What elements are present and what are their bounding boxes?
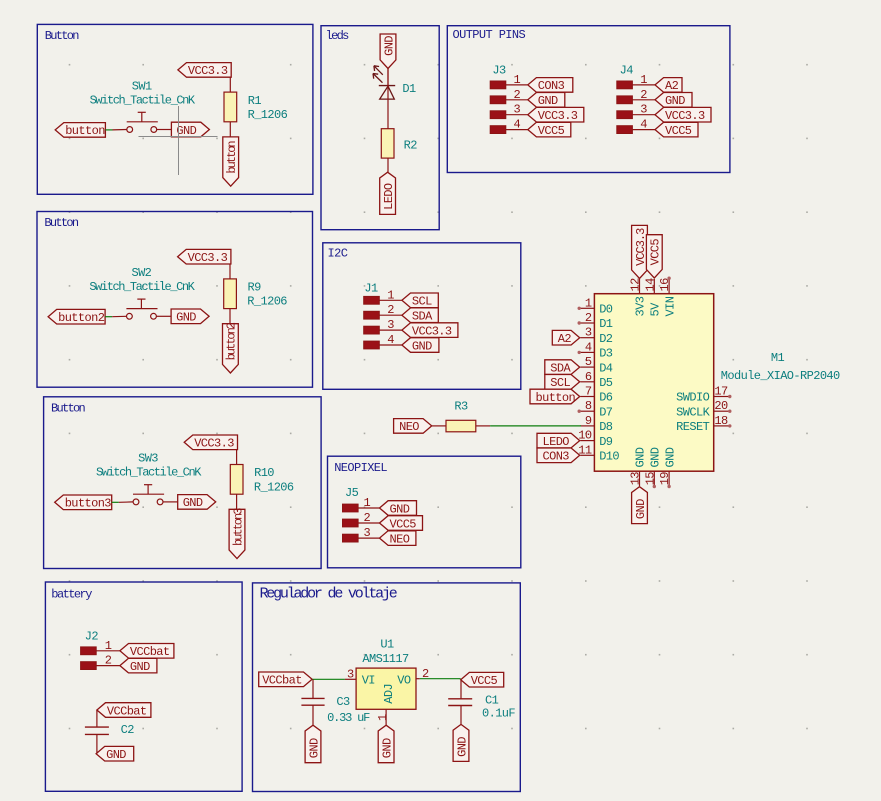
sheet box OUTPUT PINS <box>447 26 730 173</box>
pin name D9 <box>599 435 613 449</box>
svg-text:button2: button2 <box>58 311 105 325</box>
designator R10 <box>254 466 274 480</box>
power flag VCC5 (module top) <box>646 235 662 278</box>
svg-text:SW1: SW1 <box>132 79 152 93</box>
global label GND at J4 pin 2 <box>655 93 692 109</box>
global label GND at J3 pin 2 <box>528 93 565 109</box>
sheet title OUTPUT PINS <box>453 28 526 42</box>
svg-text:ADJ: ADJ <box>382 684 396 704</box>
global label VCC3.3 at J1 pin 3 <box>402 323 458 339</box>
module pin 5 (D4) <box>580 355 594 369</box>
module pin 20 (SWCLK) <box>714 399 732 413</box>
wire switch to GND <box>157 129 172 131</box>
svg-text:4: 4 <box>387 333 394 347</box>
module M1 body <box>594 294 713 472</box>
module pin 8 (D7) <box>578 399 595 413</box>
global label VCC3.3 at J3 pin 3 <box>528 107 584 123</box>
pin name D6 <box>599 391 613 405</box>
designator M1 <box>771 351 785 365</box>
svg-text:SW3: SW3 <box>138 452 158 466</box>
svg-text:SW2: SW2 <box>131 266 151 280</box>
svg-text:VCC5: VCC5 <box>390 517 417 531</box>
svg-text:VCC3.3: VCC3.3 <box>194 437 234 451</box>
module pin 9 (D8) <box>580 414 594 428</box>
svg-text:1: 1 <box>376 714 390 721</box>
svg-text:16: 16 <box>658 278 672 292</box>
svg-text:8: 8 <box>585 399 592 413</box>
connector J3 pin 2 <box>490 88 528 104</box>
svg-text:4: 4 <box>640 118 647 132</box>
pin name D8 <box>599 420 613 434</box>
wire VCC3.3 to resistor <box>229 264 231 279</box>
svg-text:3: 3 <box>514 103 521 117</box>
svg-text:3V3: 3V3 <box>634 296 648 316</box>
svg-text:I2C: I2C <box>328 246 348 260</box>
svg-text:GND: GND <box>663 447 677 467</box>
connector J2 designator <box>85 630 99 644</box>
svg-text:Switch_Tactile_CnK: Switch_Tactile_CnK <box>96 466 202 480</box>
value Switch_Tactile_CnK <box>96 466 202 480</box>
global label SCL (module) <box>545 375 580 391</box>
global label VCC5 (regulator) <box>461 672 504 688</box>
capacitor C2 <box>85 727 109 734</box>
pin name D1 <box>599 317 613 331</box>
svg-text:C3: C3 <box>336 695 350 709</box>
svg-text:5: 5 <box>585 355 592 369</box>
svg-text:Regulador de voltaje: Regulador de voltaje <box>260 585 398 602</box>
cursor crosshair <box>139 106 218 175</box>
global label SDA (module) <box>545 360 580 376</box>
svg-text:M1: M1 <box>771 351 785 365</box>
svg-text:7: 7 <box>585 385 592 399</box>
svg-text:button: button <box>536 391 576 405</box>
svg-text:J5: J5 <box>345 486 359 500</box>
global label CON3 at J3 pin 1 <box>528 78 573 94</box>
pin name D3 <box>599 347 613 361</box>
global label VCC3.3 at J4 pin 3 <box>655 107 711 123</box>
global label CON3 (module) <box>537 448 580 464</box>
svg-text:Switch_Tactile_CnK: Switch_Tactile_CnK <box>90 93 196 107</box>
svg-text:SDA: SDA <box>550 361 571 375</box>
designator SW3 <box>138 452 158 466</box>
sheet title Button <box>45 29 80 43</box>
svg-text:GND: GND <box>665 94 685 108</box>
svg-text:J4: J4 <box>620 63 634 77</box>
svg-text:GND: GND <box>455 737 469 757</box>
svg-text:2: 2 <box>364 511 371 525</box>
designator SW1 <box>132 79 152 93</box>
designator SW2 <box>131 266 151 280</box>
sheet title Button <box>44 216 79 230</box>
pin name VI <box>362 673 375 687</box>
pin name D0 <box>599 303 613 317</box>
connector J4 pin 2 <box>617 88 655 104</box>
svg-text:SDA: SDA <box>412 310 433 324</box>
svg-text:A2: A2 <box>558 332 572 346</box>
sheet box Button <box>37 24 313 194</box>
global label GND <box>178 495 216 511</box>
svg-text:button: button <box>65 124 105 138</box>
pin ADJ wire <box>385 709 387 725</box>
svg-text:R3: R3 <box>454 399 468 413</box>
pin name D10 <box>599 450 619 464</box>
svg-text:VI: VI <box>362 673 375 687</box>
svg-text:1: 1 <box>105 639 112 653</box>
pin name SWDIO <box>676 391 709 405</box>
global label button2 (down) <box>223 322 239 373</box>
designator U1 <box>380 638 394 652</box>
svg-text:SCL: SCL <box>550 376 570 390</box>
module pin 15 (GND) <box>643 471 657 488</box>
svg-text:D1: D1 <box>402 82 416 96</box>
resistor R1 <box>224 92 237 122</box>
svg-text:VIN: VIN <box>663 296 677 316</box>
connector J2 pin 2 <box>81 654 120 670</box>
connector J4 pin 4 <box>617 118 655 134</box>
designator R2 <box>404 139 418 153</box>
module pin 16 (VIN) <box>658 277 672 294</box>
global label button2 <box>48 309 105 325</box>
power flag VCC3.3 <box>178 249 231 265</box>
global label VCC5 at J5 pin 2 <box>380 516 423 532</box>
global label VCCbat (regulator) <box>259 672 312 688</box>
capacitor C1 <box>448 699 472 706</box>
global label button3 (down) <box>229 508 245 559</box>
svg-text:GND: GND <box>380 738 394 758</box>
connector J5 designator <box>345 486 359 500</box>
svg-text:VCC3.3: VCC3.3 <box>538 109 578 123</box>
svg-text:button: button <box>225 141 239 174</box>
pin name D5 <box>599 376 613 390</box>
pin name GND (15) <box>649 447 663 467</box>
svg-text:2: 2 <box>105 654 112 668</box>
svg-text:GND: GND <box>538 94 558 108</box>
value Switch_Tactile_CnK <box>90 93 196 107</box>
resistor R3 <box>446 420 476 432</box>
sheet box leds <box>321 26 439 230</box>
svg-text:Button: Button <box>45 29 80 43</box>
svg-text:VCCbat: VCCbat <box>107 704 147 718</box>
svg-text:VCC5: VCC5 <box>649 239 663 266</box>
module pin 1 (D0) <box>578 296 595 310</box>
svg-text:3: 3 <box>387 318 394 332</box>
regulator U1 body <box>356 668 416 709</box>
svg-text:D1: D1 <box>599 317 613 331</box>
svg-text:Switch_Tactile_CnK: Switch_Tactile_CnK <box>89 280 195 294</box>
svg-text:3: 3 <box>585 326 592 340</box>
module pin 12 (3V3) <box>629 278 643 294</box>
designator C3 <box>336 695 350 709</box>
global label GND <box>171 309 209 325</box>
designator C1 <box>485 694 499 708</box>
connector J3 pin 4 <box>490 118 528 134</box>
pin name 5V <box>649 302 663 317</box>
svg-text:R10: R10 <box>254 466 274 480</box>
svg-text:Button: Button <box>44 216 79 230</box>
designator R3 <box>454 399 468 413</box>
svg-text:19: 19 <box>658 472 672 486</box>
svg-text:4: 4 <box>514 118 521 132</box>
pin name ADJ <box>382 684 396 704</box>
resistor R10 <box>230 465 243 495</box>
global label VCCbat (C2 top) <box>97 703 151 719</box>
resistor R9 <box>224 279 237 309</box>
svg-text:1: 1 <box>640 73 647 87</box>
svg-text:D9: D9 <box>599 435 613 449</box>
svg-text:CON3: CON3 <box>543 450 570 464</box>
connector J4 designator <box>620 63 634 77</box>
svg-text:leds: leds <box>326 29 350 43</box>
LED D1 <box>373 66 395 129</box>
global label GND at J2 pin 2 <box>120 658 157 674</box>
module pin 13 (GND) <box>629 471 643 486</box>
svg-text:GND: GND <box>390 502 410 516</box>
global label A2 at J4 pin 1 <box>655 78 682 94</box>
svg-text:D7: D7 <box>599 405 613 419</box>
pin number 3 <box>347 668 354 682</box>
value Module_XIAO-RP2040 <box>721 369 840 383</box>
svg-text:2: 2 <box>514 88 521 102</box>
sheet title leds <box>326 29 350 43</box>
svg-text:VCC3.3: VCC3.3 <box>634 228 648 266</box>
connector J1 pin 1 <box>364 288 402 304</box>
svg-text:SCL: SCL <box>412 295 432 309</box>
svg-text:3: 3 <box>640 103 647 117</box>
global label GND at J1 pin 4 <box>402 338 439 354</box>
svg-text:NEOPIXEL: NEOPIXEL <box>334 461 387 475</box>
power flag VCC3.3 <box>178 63 231 79</box>
svg-text:GND: GND <box>382 36 396 56</box>
svg-text:GND: GND <box>106 748 126 762</box>
svg-text:2: 2 <box>387 303 394 317</box>
power flag GND (module bottom) <box>632 487 648 524</box>
svg-text:1: 1 <box>387 288 394 302</box>
power flag VCC3.3 (module top) <box>632 225 648 278</box>
svg-text:SWCLK: SWCLK <box>676 405 710 419</box>
svg-text:button2: button2 <box>225 322 239 360</box>
pin name VO <box>397 673 411 687</box>
sheet title Button <box>51 401 86 415</box>
module pin 6 (D5) <box>580 370 594 384</box>
power flag GND (under ADJ) <box>378 725 394 763</box>
module pin 4 (D3) <box>578 340 595 354</box>
module pin 14 (5V) <box>643 278 657 294</box>
svg-text:C1: C1 <box>485 694 499 708</box>
value R_1206 <box>247 295 287 309</box>
global label SCL at J1 pin 1 <box>402 293 438 309</box>
svg-text:D6: D6 <box>599 391 613 405</box>
svg-text:D3: D3 <box>599 347 613 361</box>
connector J4 pin 1 <box>617 73 655 89</box>
svg-text:R_1206: R_1206 <box>254 480 294 494</box>
svg-text:GND: GND <box>649 447 663 467</box>
value Switch_Tactile_CnK <box>89 280 195 294</box>
svg-text:5V: 5V <box>649 302 663 317</box>
pin name D2 <box>599 332 613 346</box>
module pin 3 (D2) <box>580 326 594 340</box>
svg-text:LEDO: LEDO <box>543 435 570 449</box>
svg-text:2: 2 <box>585 311 592 325</box>
wire VO to VCC5 <box>416 678 461 680</box>
wire label to switch <box>105 315 126 317</box>
wire R2 to LEDO <box>387 158 389 172</box>
module pin 11 (D10) <box>578 443 594 457</box>
sheet title I2C <box>328 246 348 260</box>
svg-text:R2: R2 <box>404 139 418 153</box>
sheet title NEOPIXEL <box>334 461 387 475</box>
pin number 2 <box>422 667 429 681</box>
svg-text:J1: J1 <box>364 282 378 296</box>
global label NEO <box>394 419 432 435</box>
svg-text:VCC5: VCC5 <box>665 124 692 138</box>
wire resistor to label <box>229 309 231 324</box>
svg-text:CON3: CON3 <box>538 79 565 93</box>
pin name 3V3 <box>634 296 648 316</box>
svg-text:battery: battery <box>51 587 92 601</box>
module pin 17 (SWDIO) <box>714 385 732 399</box>
connector J5 pin 3 <box>343 526 380 542</box>
capacitor C3 <box>301 698 324 705</box>
grid dots <box>69 64 808 729</box>
wire NEO to R3 <box>432 425 446 427</box>
svg-text:D2: D2 <box>599 332 613 346</box>
svg-text:GND: GND <box>183 496 203 510</box>
global label button <box>55 123 105 139</box>
global label LEDO <box>380 172 396 214</box>
wire resistor to label <box>229 122 231 137</box>
pin name D4 <box>599 361 613 375</box>
svg-text:J2: J2 <box>85 630 99 644</box>
svg-text:OUTPUT PINS: OUTPUT PINS <box>453 28 526 42</box>
module pin 7 (D6) <box>580 385 594 399</box>
sheet box Regulador de voltaje <box>253 583 521 792</box>
svg-text:A2: A2 <box>665 79 679 93</box>
value 0.1uF <box>482 707 515 721</box>
pin name D7 <box>599 405 613 419</box>
wire switch to GND <box>163 501 178 503</box>
wire C3 to GND <box>312 705 314 725</box>
svg-text:NEO: NEO <box>390 532 410 546</box>
wire C2 to GND <box>96 734 98 753</box>
connector J5 pin 1 <box>343 496 380 512</box>
sheet box Button <box>37 212 313 388</box>
global label button3 <box>55 495 112 511</box>
svg-text:D0: D0 <box>599 303 613 317</box>
wire label to switch <box>112 501 133 503</box>
svg-text:3: 3 <box>364 526 371 540</box>
svg-text:4: 4 <box>585 340 592 354</box>
svg-text:13: 13 <box>629 472 643 486</box>
designator R1 <box>248 94 262 108</box>
svg-text:VCC5: VCC5 <box>471 674 498 688</box>
svg-text:J3: J3 <box>492 64 506 78</box>
svg-text:0.33 uF: 0.33 uF <box>327 711 370 725</box>
svg-text:Button: Button <box>51 401 86 415</box>
global label NEO at J5 pin 3 <box>380 531 416 547</box>
value AMS1117 <box>362 652 409 666</box>
sheet box Button <box>44 397 322 569</box>
power flag VCC3.3 <box>184 435 237 451</box>
module pin 2 (D1) <box>578 311 595 325</box>
module pin 19 (GND) <box>658 471 672 488</box>
svg-text:17: 17 <box>714 385 728 399</box>
connector J5 pin 2 <box>343 511 380 527</box>
svg-text:NEO: NEO <box>399 420 419 434</box>
svg-text:12: 12 <box>629 278 643 292</box>
connector J1 pin 4 <box>364 333 402 349</box>
svg-text:D4: D4 <box>599 361 613 375</box>
sheet box NEOPIXEL <box>328 456 521 568</box>
svg-text:VCC3.3: VCC3.3 <box>188 64 228 78</box>
svg-text:R_1206: R_1206 <box>247 295 287 309</box>
svg-text:3: 3 <box>347 668 354 682</box>
svg-text:GND: GND <box>634 499 648 519</box>
connector J1 designator <box>364 282 378 296</box>
switch SW1 <box>127 112 158 132</box>
value 0.33 uF <box>327 711 370 725</box>
global label VCC5 at J3 pin 4 <box>528 122 571 138</box>
sheet title Regulador de voltaje <box>260 585 398 602</box>
designator C2 <box>121 723 135 737</box>
svg-text:GND: GND <box>412 339 432 353</box>
connector J1 pin 3 <box>364 318 402 334</box>
sheet box battery <box>45 582 242 791</box>
svg-text:15: 15 <box>643 472 657 486</box>
svg-text:GND: GND <box>176 124 196 138</box>
svg-text:button3: button3 <box>231 508 245 546</box>
global label A2 (module) <box>552 330 579 346</box>
svg-text:VO: VO <box>397 673 411 687</box>
wire junction to C3 <box>312 679 314 698</box>
pin name GND (13) <box>634 447 648 467</box>
power flag GND (leds top) <box>380 34 396 69</box>
svg-text:R1: R1 <box>248 94 262 108</box>
pin name GND (19) <box>663 447 677 467</box>
svg-text:AMS1117: AMS1117 <box>362 652 409 666</box>
wire resistor to label <box>236 494 238 509</box>
svg-text:1: 1 <box>514 73 521 87</box>
svg-text:D10: D10 <box>599 450 619 464</box>
svg-text:0.1uF: 0.1uF <box>482 707 515 721</box>
wire GND to LED <box>387 69 389 86</box>
svg-text:18: 18 <box>714 414 728 428</box>
svg-text:1: 1 <box>364 496 371 510</box>
svg-text:20: 20 <box>714 399 728 413</box>
connector J3 pin 3 <box>490 103 528 119</box>
svg-text:LEDO: LEDO <box>382 183 396 210</box>
svg-text:1: 1 <box>585 296 592 310</box>
svg-text:2: 2 <box>640 88 647 102</box>
svg-text:SWDIO: SWDIO <box>676 391 709 405</box>
svg-text:D8: D8 <box>599 420 613 434</box>
svg-text:14: 14 <box>643 278 657 292</box>
pin number 1 <box>376 714 390 721</box>
global label GND (C2 bottom) <box>96 746 134 762</box>
resistor R2 <box>381 129 394 158</box>
svg-text:C2: C2 <box>121 723 135 737</box>
svg-text:6: 6 <box>585 370 592 384</box>
connector J3 designator <box>492 64 506 78</box>
value R_1206 <box>254 480 294 494</box>
svg-text:9: 9 <box>585 414 592 428</box>
sheet title battery <box>51 587 92 601</box>
global label button (module) <box>530 389 580 405</box>
svg-text:R_1206: R_1206 <box>248 108 288 122</box>
connector J2 pin 1 <box>81 639 120 655</box>
svg-text:Module_XIAO-RP2040: Module_XIAO-RP2040 <box>721 369 840 383</box>
wire switch to GND <box>156 315 171 317</box>
global label SDA at J1 pin 2 <box>402 308 438 324</box>
